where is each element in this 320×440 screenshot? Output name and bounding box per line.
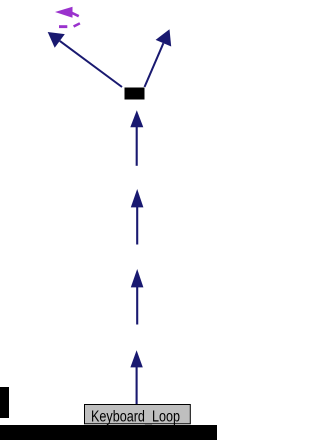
edge: vertical arrow 1 (to junction box) [130,110,143,166]
node (small black junction box) [125,88,145,100]
edge: solid arrow to upper-right [145,29,172,87]
svg-text:Keyboard_Loop: Keyboard_Loop [91,409,180,426]
edge: solid arrow to upper-left [48,32,122,87]
node (cut off, left edge) [0,387,9,418]
node row (cut off, bottom band) [0,425,217,440]
edge: dashed purple arrow to upper-left [55,7,81,28]
edge: vertical arrow 4 (from Keyboard_Loop) [130,350,142,404]
node Keyboard_Loop [85,405,191,426]
edge: vertical arrow 3 [131,269,144,325]
edge: vertical arrow 2 [131,189,144,245]
